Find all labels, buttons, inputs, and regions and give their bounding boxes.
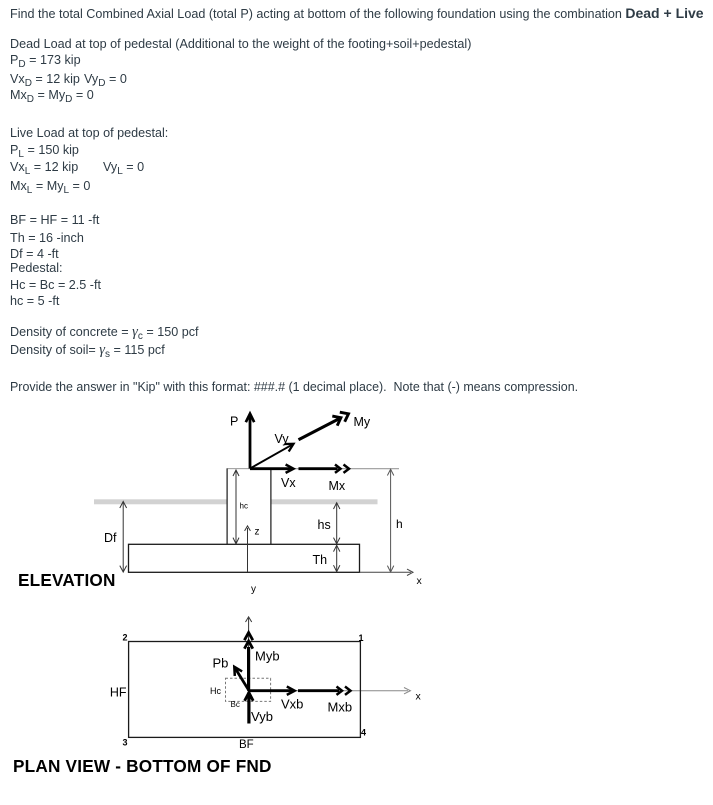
corner 2: [123, 633, 128, 643]
h extension line (pedestal top level): [227, 468, 400, 470]
density soil line: [10, 343, 165, 359]
BF HF line: [10, 213, 99, 227]
Bc label: [231, 700, 240, 709]
ELEVATION title: [18, 570, 116, 591]
svg-text:HF: HF: [110, 686, 127, 700]
dim h: [387, 469, 402, 572]
arrow Vx: [250, 465, 296, 490]
PD line: [10, 53, 81, 69]
arrow Vxb: [249, 687, 303, 712]
svg-text:Hc: Hc: [210, 686, 221, 696]
svg-text:P: P: [230, 415, 238, 429]
svg-text:hc: hc: [240, 502, 248, 511]
svg-text:1: 1: [359, 633, 364, 643]
plan x axis: [249, 688, 422, 703]
ground line: [94, 499, 378, 504]
hc line: [10, 294, 59, 308]
Th line: [10, 231, 84, 245]
arrow Mx (double head): [299, 465, 350, 493]
z axis (elevation): [245, 526, 260, 572]
svg-text:h: h: [396, 517, 403, 531]
pedestal: [227, 469, 271, 545]
svg-text:Myb: Myb: [255, 649, 280, 664]
arrow Vyb: [245, 692, 273, 724]
arrow Myb (double head): [244, 633, 279, 691]
MxD line: [10, 88, 94, 104]
svg-text:Vy: Vy: [275, 432, 290, 446]
svg-text:Vx: Vx: [281, 476, 296, 490]
svg-text:2: 2: [123, 633, 128, 643]
svg-text:z: z: [255, 527, 260, 538]
svg-text:BF: BF: [239, 739, 254, 751]
svg-text:My: My: [354, 415, 371, 429]
svg-text:Pb: Pb: [213, 656, 229, 671]
corner 4: [361, 728, 366, 738]
Hc Bc line: [10, 278, 101, 292]
svg-text:hs: hs: [318, 518, 331, 532]
MxL line: [10, 179, 90, 195]
svg-text:3: 3: [123, 738, 128, 748]
corner 1: [359, 633, 364, 643]
svg-text:y: y: [251, 584, 256, 595]
live load heading: [10, 126, 168, 140]
VxD line: [10, 72, 83, 88]
dim Th: [313, 545, 340, 571]
arrow P: [230, 414, 254, 469]
footing: [129, 544, 360, 572]
svg-text:Bc: Bc: [231, 700, 240, 709]
arrow Vy: [250, 432, 294, 469]
svg-text:Df: Df: [104, 531, 117, 545]
density concrete line: [10, 325, 199, 341]
Df line: [10, 247, 59, 261]
y label (elevation): [251, 584, 256, 595]
dashed pedestal box: [226, 678, 271, 701]
svg-text:x: x: [416, 691, 422, 703]
svg-text:Mx: Mx: [329, 479, 346, 493]
svg-text:Th: Th: [313, 553, 328, 567]
PL line: [10, 143, 79, 159]
corner 3: [123, 738, 128, 748]
x axis (elevation): [360, 569, 423, 587]
svg-text:x: x: [417, 575, 423, 587]
dim hc: [233, 470, 248, 544]
svg-text:Vxb: Vxb: [281, 697, 303, 712]
BF label: [239, 739, 254, 751]
arrow My (double head): [299, 412, 371, 440]
VxL line: [10, 160, 82, 176]
dead load heading: [10, 37, 471, 51]
arrow Pb: [213, 656, 250, 691]
provide answer line: [10, 380, 578, 394]
Pedestal heading: [10, 261, 63, 275]
dim Df: [104, 502, 127, 573]
question line 1: [10, 6, 704, 21]
dim hs: [318, 503, 340, 544]
Hc label: [210, 686, 221, 696]
PLAN VIEW title: [13, 756, 272, 777]
HF label: [110, 686, 127, 700]
svg-text:Mxb: Mxb: [328, 700, 353, 715]
plan y axis: [246, 617, 252, 691]
plan footing rect: [129, 642, 361, 738]
arrow Mxb (double head): [298, 687, 352, 715]
svg-text:Vyb: Vyb: [251, 709, 273, 724]
svg-text:4: 4: [361, 728, 366, 738]
